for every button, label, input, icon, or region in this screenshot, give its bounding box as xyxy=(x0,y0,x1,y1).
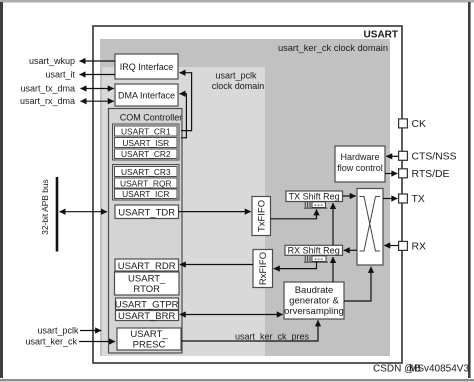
svg-text:32-bit APB bus: 32-bit APB bus xyxy=(40,179,50,234)
TX oversampling divider glyph xyxy=(304,202,327,208)
wire usart_tx_dma xyxy=(20,83,113,93)
register USART_GTPR xyxy=(115,298,179,310)
register USART_RQR xyxy=(115,178,178,188)
register USART_RDR xyxy=(115,259,179,272)
RX oversampling divider glyph xyxy=(304,256,328,262)
svg-text:USART: USART xyxy=(364,30,398,41)
register USART_CR3 xyxy=(115,167,178,177)
USART outer block xyxy=(93,26,402,363)
wire usart_ker_ck input xyxy=(25,337,115,347)
block RxFIFO xyxy=(253,250,273,288)
svg-text:USART_TDR: USART_TDR xyxy=(118,207,175,218)
block IRQ Interface xyxy=(115,54,178,79)
register group 2 xyxy=(113,165,180,201)
svg-text:usart_rx_dma: usart_rx_dma xyxy=(20,96,75,106)
block Hardware flow control xyxy=(335,146,385,182)
svg-text:usart_ker_ck clock domain: usart_ker_ck clock domain xyxy=(278,43,388,53)
register USART_TDR xyxy=(115,205,179,219)
wire registers to DMA interface xyxy=(180,94,187,138)
wire swap mux to TX pin xyxy=(383,198,397,200)
pin CK xyxy=(399,119,426,130)
wire TX shift reg to swap mux xyxy=(343,195,356,197)
register USART_ICR xyxy=(115,189,178,199)
wire RX pin to swap mux xyxy=(384,245,399,247)
register USART_CR2 xyxy=(115,149,178,159)
block TxFIFO xyxy=(252,197,271,236)
pin RX xyxy=(399,241,426,252)
svg-text:USART_RDR: USART_RDR xyxy=(118,261,176,272)
register USART_ISR xyxy=(115,138,178,148)
wire usart_pclk input xyxy=(37,326,101,336)
wire hardware flow control to RTS/DE pin xyxy=(385,173,397,175)
svg-text:usart_wkup: usart_wkup xyxy=(29,56,75,66)
wire CTS/NSS pin to hardware flow control xyxy=(386,155,399,157)
svg-text:RxFIFO: RxFIFO xyxy=(258,252,269,285)
svg-text:RTS/DE: RTS/DE xyxy=(412,169,450,180)
svg-text:TxFIFO: TxFIFO xyxy=(257,200,268,232)
wire usart_wkup xyxy=(29,56,115,66)
wire RX shift reg clock to TX shift reg xyxy=(332,203,334,245)
svg-text:USART_BRR: USART_BRR xyxy=(118,311,176,322)
svg-text:USART_CR2: USART_CR2 xyxy=(121,149,171,159)
register group 1 xyxy=(113,124,180,160)
svg-text:IRQ Interface: IRQ Interface xyxy=(120,62,174,72)
watermark xyxy=(373,364,469,375)
svg-text:CTS/NSS: CTS/NSS xyxy=(412,151,457,162)
svg-text:USART_CR3: USART_CR3 xyxy=(121,167,171,177)
svg-text:Baudrate: Baudrate xyxy=(295,285,334,296)
block Baudrate generator & orversampling xyxy=(284,282,344,319)
wire RX divider to RxFIFO xyxy=(274,262,317,269)
svg-text:clock domain: clock domain xyxy=(212,81,265,91)
svg-text:USART_ICR: USART_ICR xyxy=(122,189,169,199)
32-bit APB bus bar xyxy=(40,177,57,252)
svg-text:usart_ker_ck_pres: usart_ker_ck_pres xyxy=(235,332,310,342)
svg-text:COM Controller: COM Controller xyxy=(120,113,183,123)
svg-text:RX Shift Reg: RX Shift Reg xyxy=(288,246,340,256)
svg-text:usart_ker_ck: usart_ker_ck xyxy=(25,337,77,347)
register USART_PRESC xyxy=(117,328,181,351)
svg-text:flow control: flow control xyxy=(337,163,383,173)
wire registers to IRQ interface xyxy=(180,73,192,131)
register USART_CR1 xyxy=(115,126,178,136)
block RX Shift Reg xyxy=(285,245,343,255)
wire baudrate clock to RX shift reg xyxy=(332,257,334,282)
usart_pclk clock domain region xyxy=(102,67,265,356)
svg-text:usart_tx_dma: usart_tx_dma xyxy=(20,83,75,93)
svg-text:RX: RX xyxy=(412,241,427,252)
svg-text:generator &: generator & xyxy=(289,296,339,307)
register USART_RTOR xyxy=(115,272,180,295)
svg-text:USART_CR1: USART_CR1 xyxy=(121,126,171,136)
svg-text:usart_pclk: usart_pclk xyxy=(37,326,79,336)
svg-text:USART_RQR: USART_RQR xyxy=(120,178,172,188)
svg-text:USART_: USART_ xyxy=(128,274,166,285)
svg-text:MSv40854V3: MSv40854V3 xyxy=(409,364,469,375)
block TX Shift Reg xyxy=(286,191,343,202)
usart_ker_ck clock domain region xyxy=(100,39,390,356)
svg-text:PRESC: PRESC xyxy=(133,340,166,351)
wire usart_rx_dma xyxy=(20,96,114,106)
svg-text:TX Shift Reg: TX Shift Reg xyxy=(289,192,340,202)
svg-text:CK: CK xyxy=(412,119,427,130)
block TX/RX swap mux xyxy=(357,189,383,266)
svg-text:USART_: USART_ xyxy=(130,329,168,340)
svg-text:usart_it: usart_it xyxy=(45,69,75,79)
wire USART_BRR to baudrate generator xyxy=(180,314,283,316)
svg-text:orversampling: orversampling xyxy=(284,306,344,317)
wire baudrate generator to swap mux xyxy=(344,267,371,301)
wire RxFIFO to USART_RDR xyxy=(180,264,253,266)
wire swap mux to RX shift reg xyxy=(344,249,357,251)
block COM Controller container xyxy=(109,109,183,354)
wire usart_it xyxy=(45,69,115,79)
svg-text:RTOR: RTOR xyxy=(133,284,160,295)
pin RTS/DE xyxy=(399,169,450,180)
svg-text:usart_pclk: usart_pclk xyxy=(215,71,257,81)
svg-text:USART_GTPR: USART_GTPR xyxy=(115,299,179,310)
svg-text:TX: TX xyxy=(412,194,425,205)
pin CTS/NSS xyxy=(399,151,457,162)
wire APB bus to COM controller xyxy=(60,211,108,213)
pin TX xyxy=(399,194,425,205)
svg-text:USART_ISR: USART_ISR xyxy=(122,138,169,148)
svg-text:Hardware: Hardware xyxy=(340,152,379,162)
wire usart_ker_ck_pres xyxy=(182,320,319,341)
block DMA Interface xyxy=(115,84,178,106)
svg-text:DMA Interface: DMA Interface xyxy=(118,91,175,101)
wire TxFIFO to TX divider xyxy=(271,209,317,219)
wire USART_TDR to TxFIFO xyxy=(179,211,251,213)
register USART_BRR xyxy=(116,311,179,323)
